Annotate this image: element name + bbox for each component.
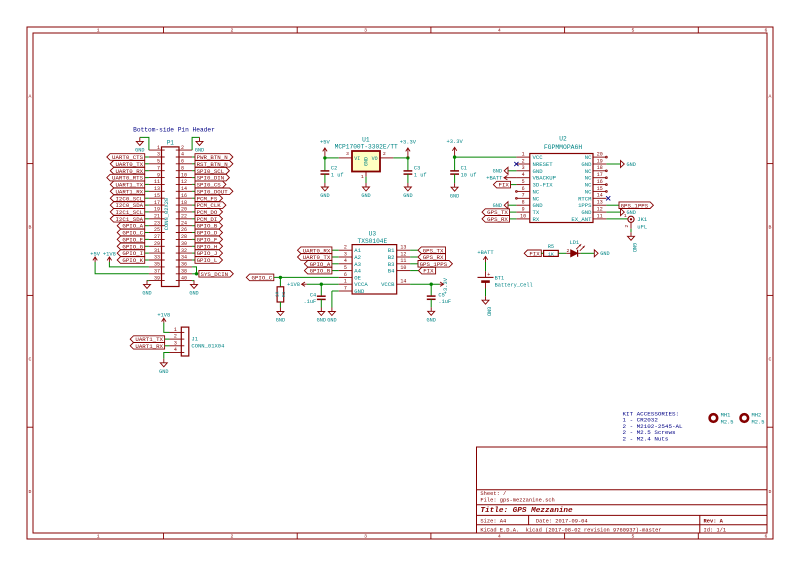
svg-text:35: 35 (154, 262, 160, 268)
svg-text:12: 12 (400, 251, 406, 257)
node PCM_FS (195, 195, 223, 202)
wire U2 pin 11 to JK1 (606, 218, 628, 220)
unconnected pin end U2 pin 17 (606, 177, 608, 179)
svg-text:UART1_RX: UART1_RX (135, 343, 163, 350)
wire GPIO_C to U3 OE (274, 276, 339, 278)
node SPI0_SCL (195, 167, 229, 174)
wire C3 to GND (407, 174, 409, 183)
svg-text:RX: RX (533, 216, 540, 223)
svg-text:FIX: FIX (499, 182, 510, 189)
svg-text:C: C (29, 356, 32, 362)
svg-text:15: 15 (597, 186, 603, 192)
node UART0_CTS (107, 154, 145, 161)
svg-text:MH2: MH2 (752, 413, 762, 419)
wire junction down to C1 (454, 157, 456, 171)
wire JK1 pin 2 to GND (630, 229, 632, 233)
svg-text:15: 15 (154, 193, 160, 199)
svg-text:.1uF: .1uF (438, 299, 451, 305)
node GPIO_B (195, 222, 223, 229)
svg-text:5: 5 (344, 265, 347, 271)
svg-text:CONN_02X20: CONN_02X20 (164, 198, 170, 230)
wire junction down to C5 (430, 284, 432, 296)
no-connect at U2 pin 14 RTCM (606, 196, 610, 200)
power +BATT at BT1 (477, 250, 494, 262)
svg-text:TXS0104E: TXS0104E (358, 238, 388, 245)
wire P1 pin 4 to label PWR_BTN_N (192, 156, 195, 158)
node FIX at U2 pin 5 (493, 181, 510, 188)
wire C4 to GND (320, 299, 322, 307)
svg-text:21: 21 (154, 214, 160, 220)
svg-text:GND: GND (631, 243, 637, 252)
svg-text:C2: C2 (331, 166, 337, 172)
wire P1 pin 10 to label SPI0_DIN (192, 177, 195, 179)
no-connect at U2 pin 2 NRESET (514, 162, 518, 166)
unconnected pin end U2 pin 7 (516, 197, 518, 199)
wire P1 pin 32 to label GPIO_J (192, 252, 195, 254)
svg-text:GND: GND (327, 318, 336, 324)
wire UART0_TX label to U3 (332, 256, 339, 258)
wire U2 pin 10 to GPS_RX label (510, 218, 517, 220)
svg-text:uFL: uFL (637, 223, 647, 230)
unconnected pin end U2 pin 20 (606, 156, 608, 158)
svg-text:GND: GND (276, 318, 285, 324)
title block separator lines (477, 490, 768, 533)
frame column tick (564, 27, 566, 33)
wire P1 pin 37 to +5V (95, 262, 149, 274)
wire P1 pin 3 to label UART0_CTS (145, 156, 149, 158)
svg-text:7: 7 (344, 285, 347, 291)
svg-text:MCP1700T-3302E/TT: MCP1700T-3302E/TT (335, 143, 398, 150)
coax connector JK1 uFL (624, 213, 648, 230)
wire P1 pin 24 to label GPIO_B (192, 225, 195, 227)
wire R5 to LD1 (558, 252, 566, 254)
wire P1 pin 7 to label UART0_RX (145, 170, 149, 172)
svg-text:+5V: +5V (320, 140, 330, 146)
wire P1 pin 38 to SYS_DCIN (192, 273, 195, 275)
wire UART1_TX to J1 pin 2 (165, 338, 170, 340)
wire P1 pin 23 to label GPIO_A (145, 225, 149, 227)
svg-text:M2.5: M2.5 (752, 420, 765, 426)
wire P1 pin 8 to label SPI0_SCL (192, 170, 195, 172)
node GPIO_B at U3 A4 (304, 267, 332, 274)
svg-text:EX_ANT: EX_ANT (571, 216, 592, 223)
wire U2 pin 5 to FIX label (511, 184, 517, 186)
svg-text:GND: GND (159, 369, 168, 375)
unconnected pin end U2 pin 15 (606, 191, 608, 193)
svg-text:3: 3 (174, 340, 177, 346)
node GPIO_E (117, 236, 145, 243)
svg-text:GPIO_C: GPIO_C (251, 275, 272, 282)
svg-text:1K: 1K (548, 251, 554, 257)
svg-text:8: 8 (522, 200, 525, 206)
svg-text:6: 6 (765, 534, 768, 540)
svg-text:38: 38 (181, 269, 187, 275)
svg-text:1 uf: 1 uf (331, 173, 344, 179)
svg-text:10: 10 (400, 265, 406, 271)
wire junction down to C4 (320, 284, 322, 296)
svg-text:FIX: FIX (529, 250, 540, 257)
power +5V at P1 pin 37 (90, 251, 100, 262)
svg-text:GND: GND (317, 318, 326, 324)
svg-text:LD1: LD1 (570, 240, 580, 246)
wire UART1_RX to J1 pin 3 (165, 345, 170, 347)
svg-text:5: 5 (632, 28, 635, 34)
wire UART0_RX label to U3 (332, 249, 339, 251)
node GPIO_C (117, 229, 145, 236)
wire P1 pin 16 to label PCM_FS (192, 197, 195, 199)
node I2C1_SCL (110, 209, 144, 216)
svg-text:C3: C3 (414, 166, 420, 172)
node GPS_TX at U3 B1 (418, 247, 446, 254)
svg-text:Sheet: /: Sheet: / (480, 491, 506, 497)
svg-text:GPIO_L: GPIO_L (197, 257, 218, 264)
node GPIO_D (195, 229, 223, 236)
wire U3 GND pin down (331, 291, 333, 308)
svg-text:36: 36 (181, 262, 187, 268)
svg-text:2: 2 (230, 28, 233, 34)
svg-text:P1: P1 (167, 139, 175, 146)
wire P1 pin 13 to label UART1_RX (145, 190, 149, 192)
junction +3.3V rail at C1 (453, 155, 456, 158)
svg-text:3: 3 (364, 534, 367, 540)
wire P1 pin 18 to label PCM_CLK (192, 204, 195, 206)
svg-text:GND: GND (189, 291, 198, 297)
svg-text:12: 12 (597, 207, 603, 213)
svg-text:9: 9 (157, 172, 160, 178)
svg-text:GND: GND (195, 148, 204, 154)
node UART1_RX at J1 pin 3 (130, 343, 164, 350)
node SPI0_CS (195, 181, 226, 188)
svg-text:M2.5: M2.5 (721, 420, 734, 426)
svg-text:1: 1 (344, 279, 347, 285)
svg-text:39: 39 (154, 275, 160, 281)
svg-text:JK1: JK1 (637, 216, 648, 223)
svg-text:26: 26 (181, 227, 187, 233)
resistor R1 (274, 287, 287, 302)
power +3.3V at U1 output (400, 140, 417, 158)
wire BT1 to GND (485, 289, 487, 297)
node GPS_RX at U2 pin 10 (482, 216, 510, 223)
wire P1 pin 1 to GND (140, 137, 149, 150)
svg-text:FIX: FIX (423, 268, 434, 275)
svg-text:20: 20 (597, 152, 603, 158)
LED LD1 (566, 240, 584, 257)
connector P1 pin stubs and numbers (149, 145, 192, 281)
svg-text:GND: GND (142, 291, 151, 297)
svg-text:7: 7 (522, 193, 525, 199)
svg-text:FGPMMOPA6H: FGPMMOPA6H (544, 144, 583, 151)
svg-text:GND: GND (427, 318, 436, 324)
ground at U3 pin 7 (327, 308, 336, 324)
capacitor C2 (321, 166, 344, 179)
node GPIO_I (117, 250, 145, 257)
node UART0_RX at U3 A1 (298, 247, 332, 254)
wire P1 pin 6 to label RST_BTN_N (192, 163, 195, 165)
svg-text:18: 18 (181, 200, 187, 206)
node UART0_TX (110, 161, 144, 168)
wire U3 GND pin elbow (332, 290, 339, 292)
power +1V8 at P1 pin 35 (103, 251, 116, 262)
svg-text:13: 13 (597, 200, 603, 206)
svg-text:3: 3 (157, 152, 160, 158)
svg-text:2: 2 (174, 334, 177, 340)
svg-text:+BATT: +BATT (477, 250, 494, 256)
svg-text:+: + (487, 272, 490, 278)
level shifter U3 TXS0104E body (352, 231, 397, 294)
frame row tick (27, 294, 33, 296)
wire P1 pin 39 to GND (147, 279, 149, 281)
wire P1 pin 20 to label PCM_DO (192, 211, 195, 213)
svg-text:37: 37 (154, 269, 160, 275)
node UART1_TX (110, 181, 144, 188)
node UART0_RTS (107, 174, 145, 181)
wire +1V8 to U3 VCCA (307, 283, 339, 285)
svg-text:17: 17 (597, 172, 603, 178)
svg-text:19: 19 (154, 207, 160, 213)
mounting hole MH2 (741, 413, 765, 426)
junction VCCA at C4 (320, 283, 323, 286)
svg-text:1: 1 (174, 327, 177, 333)
unconnected pin end U2 pin 16 (606, 184, 608, 186)
svg-text:GPS_RX: GPS_RX (487, 216, 508, 223)
text note KIT ACCESSORIES list (623, 411, 684, 443)
U3 left pins with names and numbers (339, 245, 369, 295)
junction GPIO_C at R1 (279, 276, 282, 279)
title block outline (477, 447, 768, 533)
wire C1 to GND (454, 174, 456, 183)
svg-text:40: 40 (181, 275, 187, 281)
svg-text:GND: GND (403, 193, 412, 199)
ground at C5 (427, 307, 436, 323)
svg-text:GND: GND (135, 148, 144, 154)
wire J1 pin 4 to GND (164, 353, 170, 359)
ground at R1 (276, 308, 285, 324)
svg-text:VCCB: VCCB (381, 281, 395, 288)
node FIX at U3 B4 (419, 267, 436, 274)
frame row tick (27, 163, 33, 165)
svg-text:J1: J1 (191, 335, 198, 342)
svg-text:Size: A4: Size: A4 (480, 518, 506, 524)
svg-text:23: 23 (154, 220, 160, 226)
node PCM_CLK (195, 202, 226, 209)
wire P1 pin 33 to label GPIO_K (145, 259, 149, 261)
ground at C2 (320, 183, 329, 199)
U1 pin 1 GND (361, 172, 366, 180)
svg-text:2: 2 (181, 145, 184, 151)
svg-text:U2: U2 (559, 136, 567, 143)
svg-text:+3.3V: +3.3V (447, 139, 464, 145)
svg-text:+1V8: +1V8 (103, 251, 116, 257)
wire P1 pin 26 to label GPIO_D (192, 232, 195, 234)
svg-text:27: 27 (154, 234, 160, 240)
svg-text:16: 16 (597, 179, 603, 185)
svg-text:19: 19 (597, 158, 603, 164)
mounting hole MH1 (710, 413, 734, 426)
connector P1 CONN_02X20 body (162, 139, 180, 286)
node GPIO_C at U3 OE (246, 274, 273, 281)
ground at P1 pin 39 (142, 280, 151, 296)
svg-text:VO: VO (372, 156, 378, 162)
wire U2 pin 9 to GPS_TX label (510, 211, 517, 213)
wire junction down to C3 (407, 158, 409, 171)
node SPI0_DIN (195, 174, 229, 181)
svg-text:7: 7 (157, 165, 160, 171)
svg-text:3: 3 (344, 251, 347, 257)
power +5V at U1 input (320, 140, 330, 158)
svg-text:6: 6 (522, 186, 525, 192)
ground at JK1 (628, 232, 637, 252)
svg-text:20: 20 (181, 207, 187, 213)
ground at BT1 (482, 296, 491, 316)
svg-text:13: 13 (154, 186, 160, 192)
svg-text:2: 2 (522, 158, 525, 164)
wire P1 pin 35 to +1V8 (109, 262, 148, 267)
capacitor C5 labels (438, 293, 451, 306)
U2 right pins 20-11 with names and numbers (571, 152, 606, 223)
svg-text:2: 2 (344, 245, 347, 251)
ground at U2 pin 19 (621, 161, 636, 168)
wire LD1 to GND (581, 252, 595, 254)
svg-text:18: 18 (597, 165, 603, 171)
wire U3 VCCB to +3.3V (410, 283, 439, 285)
node GPS_1PPS at U2 pin 13 (619, 202, 653, 209)
node GPIO_F (195, 236, 223, 243)
svg-text:11: 11 (154, 179, 160, 185)
svg-text:3: 3 (364, 28, 367, 34)
wire P1 pin 40 to GND (192, 279, 194, 281)
svg-text:1: 1 (361, 174, 364, 180)
svg-text:+5V: +5V (90, 251, 100, 257)
svg-text:Rev: A: Rev: A (704, 518, 724, 524)
ground at U2 pin 3 (493, 167, 508, 174)
frame column tick (697, 27, 699, 33)
svg-text:KiCad E.D.A. kicad (2017-08-0: KiCad E.D.A. kicad (2017-08-02 revision … (480, 527, 661, 533)
svg-text:11: 11 (597, 213, 603, 219)
svg-text:1 uf: 1 uf (414, 173, 427, 179)
svg-text:GND: GND (450, 193, 459, 199)
svg-text:14: 14 (181, 186, 187, 192)
wire P1 pin 19 to label I2C1_SCL (145, 211, 149, 213)
svg-text:VI: VI (354, 156, 360, 162)
svg-text:Bottom-side Pin Header: Bottom-side Pin Header (133, 127, 215, 134)
node PWR_BTN_N (195, 154, 233, 161)
svg-text:1: 1 (97, 28, 100, 34)
junction +5V rail at C2 (323, 156, 326, 159)
node UART0_RX (110, 167, 144, 174)
svg-text:Id: 1/1: Id: 1/1 (704, 527, 727, 533)
svg-text:File: gps-mezzanine.sch: File: gps-mezzanine.sch (480, 497, 554, 503)
ground at C1 (450, 183, 459, 199)
wire FIX label to R5 (541, 252, 543, 254)
node GPIO_H (195, 243, 223, 250)
U3 right pins with names and numbers (381, 245, 410, 289)
svg-text:R5: R5 (548, 244, 554, 250)
node I2C0_SCL (110, 195, 144, 202)
svg-text:4: 4 (174, 347, 177, 353)
node GPIO_A at U3 A3 (304, 261, 332, 268)
svg-text:MH1: MH1 (721, 413, 731, 419)
battery BT1 Battery_Cell (478, 271, 533, 288)
svg-text:R1: R1 (281, 291, 287, 297)
svg-text:30: 30 (181, 241, 187, 247)
svg-text:GND: GND (320, 193, 329, 199)
wire junction down to R1 (279, 277, 281, 286)
svg-text:2: 2 (383, 151, 386, 157)
node SYS_DCIN (199, 271, 233, 278)
ground at P1 pin 40 (189, 280, 198, 296)
node PCM_DO (195, 209, 223, 216)
node FIX at R5 (524, 250, 541, 257)
frame row tick (27, 426, 33, 428)
wire P1 pin 9 to label UART0_RTS (145, 177, 149, 179)
wire C5 to GND (430, 299, 432, 307)
svg-text:6: 6 (344, 272, 347, 278)
svg-text:GND: GND (627, 162, 636, 168)
capacitor C1 (450, 166, 476, 179)
svg-text:22: 22 (181, 214, 187, 220)
svg-text:5: 5 (157, 159, 160, 165)
svg-text:GPIO_B: GPIO_B (310, 268, 331, 275)
U1 pin 2 VO (380, 151, 393, 158)
svg-text:CONN_01X04: CONN_01X04 (191, 342, 225, 349)
svg-text:17: 17 (154, 200, 160, 206)
junction at SYS_DCIN net (195, 272, 198, 275)
svg-text:34: 34 (181, 255, 187, 261)
wire U3 B3 to GPS_1PPS label (410, 263, 418, 265)
svg-text:31: 31 (154, 248, 160, 254)
svg-text:1: 1 (157, 145, 160, 151)
svg-text:C4: C4 (310, 293, 316, 299)
svg-text:A: A (29, 93, 32, 99)
node UART0_TX at U3 A2 (298, 254, 332, 261)
ground at U2 pin 12 (621, 209, 636, 216)
svg-text:11: 11 (400, 258, 406, 264)
svg-text:13: 13 (400, 245, 406, 251)
wire P1 pin 34 to label GPIO_L (192, 259, 195, 261)
wire U3 B4 to FIX label (410, 270, 418, 272)
svg-text:GND: GND (364, 157, 370, 166)
ground at C3 (403, 183, 412, 199)
node I2C0_SDA (110, 202, 144, 209)
J1 pin stubs and numbers (170, 327, 185, 353)
capacitor C4 labels (303, 293, 316, 306)
node GPIO_K (117, 257, 145, 264)
wire U2 pin 19 to GND (606, 163, 620, 165)
wire P1 pin 21 to label I2C1_SDA (145, 218, 149, 220)
svg-text:1K: 1K (274, 291, 280, 297)
svg-text:4: 4 (522, 172, 525, 178)
node GPS_1PPS at U3 B3 (418, 261, 452, 268)
ground at U2 pin 8 (493, 202, 508, 209)
wire P1 pin 27 to label GPIO_E (145, 238, 149, 240)
GPS module U2 FGPMMOPA6H body (530, 136, 593, 223)
svg-text:12: 12 (181, 179, 187, 185)
svg-text:U3: U3 (369, 231, 377, 238)
svg-text:3: 3 (346, 151, 349, 157)
svg-text:4: 4 (344, 258, 347, 264)
svg-text:5: 5 (522, 179, 525, 185)
svg-text:+3.3V: +3.3V (400, 140, 417, 146)
svg-text:24: 24 (181, 220, 187, 226)
svg-text:C: C (769, 356, 772, 362)
wire P1 pin 12 to label SPI0_CS (192, 183, 195, 185)
svg-text:9: 9 (522, 207, 525, 213)
svg-text:4: 4 (498, 534, 501, 540)
svg-text:14: 14 (597, 193, 603, 199)
svg-text:10: 10 (181, 172, 187, 178)
svg-text:B: B (29, 225, 32, 231)
node UART1_TX at J1 pin 2 (130, 336, 164, 343)
